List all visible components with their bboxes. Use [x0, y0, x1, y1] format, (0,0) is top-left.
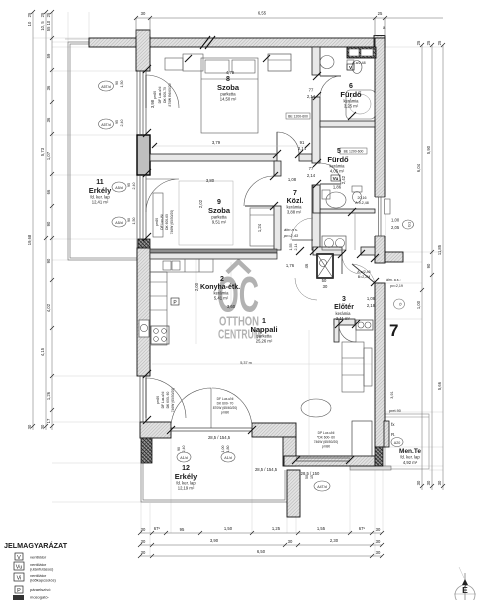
room8 bed — [201, 58, 258, 133]
svg-text:Előtér: Előtér — [334, 304, 354, 311]
svg-text:pv=2,43: pv=2,43 — [283, 233, 299, 238]
svg-text:25: 25 — [437, 40, 442, 45]
room 7 kozl label — [287, 190, 304, 215]
door arc hall to bath5 — [320, 163, 341, 184]
step wall vertical — [283, 437, 296, 466]
right wall dark block — [375, 447, 383, 466]
interior wall room8 south east part — [299, 154, 312, 161]
svg-text:12,19 m²: 12,19 m² — [178, 486, 195, 491]
shaft door arc to corridor — [295, 278, 317, 300]
svg-text:3,80: 3,80 — [206, 178, 215, 183]
door leaf room9 — [245, 205, 274, 207]
eloter washer box — [356, 320, 373, 330]
outer wall left lower — [137, 248, 150, 376]
right wall widening block — [384, 421, 389, 447]
A1/d circles balcony12 — [177, 452, 191, 462]
svg-text:50: 50 — [322, 278, 327, 283]
room 11 erkely label — [89, 179, 112, 205]
room 3 eloter label — [334, 296, 354, 321]
window in right wall (bath area) — [374, 197, 385, 236]
svg-text:É: É — [462, 585, 468, 595]
svg-text:4,15: 4,15 — [40, 347, 45, 356]
svg-text:3,90: 3,90 — [210, 538, 219, 543]
svg-text:DK 600-70: DK 600-70 — [163, 87, 167, 103]
outer wall top — [89, 38, 385, 47]
svg-text:pret.90: pret.90 — [389, 409, 401, 413]
left pier 2 dark — [138, 239, 150, 249]
svg-text:30: 30 — [376, 527, 381, 532]
svg-text:1,00: 1,00 — [391, 218, 400, 223]
svg-text:30: 30 — [141, 11, 146, 16]
svg-text:11,85: 11,85 — [437, 244, 442, 255]
G1 circle — [403, 220, 414, 229]
interior wall bath column west a — [312, 47, 320, 75]
room 12 erkely label — [175, 465, 198, 491]
svg-text:4,02: 4,02 — [46, 303, 51, 312]
svg-text:90: 90 — [177, 447, 181, 451]
svg-text:Vi: Vi — [17, 576, 22, 582]
svg-text:30: 30 — [426, 480, 431, 485]
window glazing nappali west — [140, 376, 146, 422]
door leaf bath6 — [320, 75, 341, 77]
svg-text:B=2,2M: B=2,2M — [358, 275, 371, 279]
door arc room9 balcony — [146, 179, 179, 212]
door arc room8 to hall — [277, 132, 299, 154]
svg-text:25: 25 — [426, 40, 431, 45]
svg-text:A1/d: A1/d — [180, 456, 187, 460]
svg-text:746W (65/50/20): 746W (65/50/20) — [170, 210, 174, 235]
svg-text:1,80: 1,80 — [226, 446, 230, 453]
svg-text:1: 1 — [262, 318, 266, 325]
interior wall bath column west b — [312, 97, 320, 163]
svg-text:A5/d: A5/d — [115, 186, 122, 190]
svg-text:1,50: 1,50 — [120, 81, 124, 88]
projection guide lines — [33, 12, 443, 556]
svg-text:A4T/d: A4T/d — [317, 485, 327, 489]
svg-text:5,73: 5,73 — [40, 147, 45, 156]
svg-text:3,91: 3,91 — [390, 391, 394, 398]
svg-text:6,55: 6,55 — [258, 11, 267, 16]
bath5 wc — [352, 186, 362, 192]
french door south arcs — [171, 388, 211, 428]
A20 circle — [391, 438, 403, 447]
balcony 11 railing outline — [68, 42, 137, 260]
svg-text:50: 50 — [305, 475, 309, 479]
window spec text room8 — [153, 83, 172, 106]
V symbol bath6 — [347, 64, 354, 70]
svg-text:álm a s.: álm a s. — [284, 227, 298, 232]
french door south opening glazing — [171, 428, 252, 431]
bottom wall right long — [284, 456, 375, 466]
entry door leaf — [352, 264, 375, 283]
stair landing wall stub — [385, 252, 403, 262]
svg-text:5: 5 — [337, 148, 341, 155]
window glazing room8 west — [140, 71, 146, 135]
svg-text:1,50: 1,50 — [224, 526, 233, 531]
room 2 konyha label — [200, 276, 240, 301]
svg-text:46: 46 — [304, 263, 309, 268]
svg-text:DF Lux-iNi: DF Lux-iNi — [160, 214, 164, 230]
svg-text:10, 5: 10, 5 — [40, 21, 45, 31]
svg-text:12,41 m²: 12,41 m² — [92, 200, 109, 205]
interior wall bath5 south — [320, 209, 375, 213]
svg-text:6: 6 — [349, 83, 353, 90]
interior dims and spec texts — [150, 61, 403, 479]
watermark logo OC Otthon Centrum — [217, 262, 261, 342]
svg-text:90: 90 — [46, 221, 51, 226]
svg-text:2,18: 2,18 — [367, 303, 376, 308]
svg-text:30: 30 — [376, 539, 381, 544]
door leaf bath5 — [320, 183, 341, 185]
svg-text:95: 95 — [127, 183, 131, 187]
window spec text room9 — [155, 210, 174, 235]
bottom-left dark block — [141, 438, 152, 463]
bath6 tub — [346, 90, 375, 119]
svg-text:30: 30 — [376, 550, 381, 555]
door arc nappali west — [146, 378, 186, 418]
svg-text:álm. a.s.:: álm. a.s.: — [386, 278, 401, 282]
svg-text:30: 30 — [27, 424, 32, 429]
svg-text:1,08: 1,08 — [367, 296, 376, 301]
svg-text:fd. ker. lap: fd. ker. lap — [400, 455, 420, 460]
svg-text:28,5 / 154,5: 28,5 / 154,5 — [208, 435, 231, 440]
svg-text:14,50 m²: 14,50 m² — [220, 97, 237, 102]
svg-text:1,86: 1,86 — [333, 185, 342, 190]
svg-text:3,79: 3,79 — [212, 140, 221, 145]
corridor south wall — [150, 249, 277, 253]
svg-text:30: 30 — [437, 480, 442, 485]
svg-text:DF Lux-uNi: DF Lux-uNi — [161, 391, 165, 408]
svg-text:12: 12 — [182, 465, 190, 472]
balcony 11 slab line top — [65, 38, 89, 40]
svg-text:30: 30 — [288, 539, 293, 544]
room8 wardrobe top — [165, 58, 183, 70]
svg-text:A.a/2,48: A.a/2,48 — [352, 61, 365, 65]
svg-text:7: 7 — [389, 321, 398, 340]
eloter west stub wall — [334, 319, 339, 342]
bath5 west wall lower — [313, 185, 320, 213]
svg-text:4,05 m²: 4,05 m² — [330, 169, 345, 174]
svg-text:25,26 m²: 25,26 m² — [256, 339, 273, 344]
nappali sofa — [342, 342, 364, 392]
entry door arc from landing — [342, 255, 361, 274]
svg-text:1,55: 1,55 — [289, 244, 293, 251]
svg-text:A5/d: A5/d — [115, 221, 122, 225]
svg-text:pm90: pm90 — [221, 411, 229, 415]
svg-text:A1/d: A1/d — [224, 456, 231, 460]
terrace door glazing south-east — [296, 421, 372, 461]
svg-text:V: V — [17, 555, 21, 561]
svg-text:pm90: pm90 — [156, 396, 160, 404]
svg-text:1,26: 1,26 — [46, 391, 51, 400]
svg-text:30: 30 — [323, 284, 328, 289]
svg-text:1,76: 1,76 — [286, 263, 295, 268]
room 8 label — [217, 76, 240, 102]
svg-text:67⁵: 67⁵ — [154, 526, 161, 531]
svg-text:91: 91 — [300, 140, 305, 145]
door spec text terrace door — [314, 431, 339, 449]
P symbol kitchen — [171, 298, 179, 305]
north arrow — [454, 567, 476, 600]
svg-text:2,02: 2,02 — [198, 199, 203, 208]
svg-text:2,00: 2,00 — [194, 282, 199, 291]
svg-text:DP Lux-uNi: DP Lux-uNi — [318, 431, 335, 435]
svg-text:36: 36 — [46, 85, 51, 90]
svg-text:28,5 / 154,5: 28,5 / 154,5 — [255, 467, 278, 472]
boiler on wall — [139, 320, 149, 337]
svg-text:1,25: 1,25 — [272, 526, 281, 531]
svg-text:90: 90 — [127, 218, 131, 222]
svg-text:(időkapcsolós): (időkapcsolós) — [30, 578, 56, 583]
svg-text:1,07: 1,07 — [46, 151, 51, 160]
svg-text:1,24: 1,24 — [257, 223, 262, 232]
svg-text:2,11 m²: 2,11 m² — [336, 316, 350, 321]
svg-text:25: 25 — [40, 12, 45, 17]
A4T/d circle — [314, 481, 330, 491]
svg-text:6,50: 6,50 — [257, 549, 266, 554]
Vu symbol bath5 — [331, 175, 340, 181]
svg-text:DK 600- 60: DK 600- 60 — [166, 391, 170, 408]
svg-text:A5T/d: A5T/d — [101, 123, 111, 127]
entry shaft — [317, 254, 333, 278]
bath6 sink — [320, 56, 334, 69]
legend JELMAGYARAZAT — [4, 541, 68, 600]
svg-text:30: 30 — [141, 539, 146, 544]
terrace Men.Te outline — [385, 414, 429, 469]
svg-text:59: 59 — [46, 53, 51, 58]
svg-text:15: 15 — [310, 475, 314, 479]
svg-text:G: G — [398, 302, 403, 305]
svg-text:3: 3 — [342, 296, 346, 303]
balcony 12 railing outline — [141, 463, 287, 502]
room9 wardrobe — [153, 193, 163, 237]
room9 bed — [250, 208, 274, 246]
svg-text:2,14: 2,14 — [294, 244, 298, 251]
door spec text south french door — [213, 397, 238, 415]
svg-text:(utánfutásos): (utánfutásos) — [30, 567, 54, 572]
svg-text:1,08: 1,08 — [288, 177, 297, 182]
svg-text:BE 1200-600: BE 1200-600 — [344, 150, 364, 154]
svg-text:4,79: 4,79 — [226, 70, 235, 75]
svg-text:pv=2,19: pv=2,19 — [390, 284, 403, 288]
tick slashes openings — [143, 36, 379, 464]
door leaf room8 hall — [276, 132, 278, 154]
outer wall right upper — [375, 38, 385, 263]
dimension chain top — [136, 18, 443, 36]
svg-text:A20: A20 — [394, 441, 400, 445]
svg-text:pm90: pm90 — [153, 91, 157, 99]
svg-text:*DK 600- 60: *DK 600- 60 — [317, 436, 335, 440]
svg-text:66: 66 — [46, 189, 51, 194]
svg-text:870W R6/60/20: 870W R6/60/20 — [168, 83, 172, 106]
svg-text:3,60: 3,60 — [227, 304, 236, 309]
svg-text:25: 25 — [378, 11, 383, 16]
door arc eloter to nappali — [339, 325, 356, 342]
dimension chains left — [33, 12, 52, 430]
svg-text:746W (65/50/20): 746W (65/50/20) — [314, 440, 339, 444]
svg-text:5,66: 5,66 — [437, 381, 442, 390]
stove — [151, 326, 169, 344]
svg-text:DK 600-60: DK 600-60 — [165, 214, 169, 230]
svg-text:90: 90 — [115, 81, 119, 85]
terrace floor strip — [350, 466, 391, 470]
svg-text:5,41 m²: 5,41 m² — [214, 296, 229, 301]
svg-text:4,92 m²: 4,92 m² — [403, 460, 418, 465]
svg-text:Vu: Vu — [333, 176, 339, 181]
svg-text:870W (65/60/20): 870W (65/60/20) — [213, 406, 238, 410]
svg-text:11: 11 — [96, 179, 104, 186]
svg-text:25: 25 — [27, 12, 32, 17]
svg-text:67⁵: 67⁵ — [359, 526, 366, 531]
A5T/d circles balcony11 — [99, 81, 114, 91]
svg-text:55 10: 55 10 — [46, 20, 51, 31]
dimension chains bottom — [140, 533, 382, 556]
svg-text:90: 90 — [426, 263, 431, 268]
svg-text:A.9-2,48: A.9-2,48 — [355, 201, 369, 205]
svg-text:A5T/d: A5T/d — [101, 85, 111, 89]
nappali coffee table — [301, 399, 331, 417]
svg-text:DF Lux-uNi: DF Lux-uNi — [158, 86, 162, 103]
dimension chains right — [422, 45, 443, 490]
kitchen counter west — [150, 272, 167, 345]
svg-text:90: 90 — [46, 258, 51, 263]
window spec text nappali west — [156, 388, 175, 413]
svg-text:2,30: 2,30 — [330, 538, 339, 543]
top-right corner pilaster — [374, 36, 385, 47]
svg-text:2,40: 2,40 — [132, 183, 136, 190]
outer wall bottom-left piece — [140, 422, 171, 438]
svg-text:BE 1200-600: BE 1200-600 — [288, 115, 308, 119]
svg-text:A.a/2,46: A.a/2,46 — [357, 270, 370, 274]
interior wall bath6 south — [320, 121, 375, 127]
svg-text:2,42: 2,42 — [341, 175, 346, 184]
corridor south wall east piece b — [361, 247, 375, 255]
entry threshold — [375, 262, 385, 264]
door arc room8 balcony — [146, 75, 179, 108]
door spec circle eloter — [394, 299, 405, 309]
svg-text:10: 10 — [27, 21, 32, 26]
bath shaft top — [347, 47, 376, 58]
lower right stub wall — [287, 470, 300, 517]
svg-text:2,40: 2,40 — [182, 446, 186, 453]
svg-text:1,55: 1,55 — [317, 526, 326, 531]
room9 inner rect — [179, 181, 233, 245]
svg-text:7: 7 — [293, 190, 297, 197]
left pier 1 — [137, 135, 150, 175]
outer wall left top stub — [136, 30, 150, 71]
svg-text:20,16: 20,16 — [358, 196, 367, 200]
interior wall room8 south west part — [150, 154, 277, 161]
svg-text:6,04: 6,04 — [416, 163, 421, 172]
svg-text:DK 600- 70: DK 600- 70 — [217, 402, 234, 406]
svg-text:2,40: 2,40 — [120, 120, 124, 127]
svg-text:30: 30 — [416, 480, 421, 485]
svg-text:8: 8 — [226, 76, 230, 83]
svg-text:19,68: 19,68 — [27, 234, 32, 245]
svg-text:95: 95 — [115, 120, 119, 124]
svg-text:R.: R. — [391, 432, 396, 437]
svg-text:1,00: 1,00 — [221, 446, 225, 453]
window glazing room9 west — [140, 175, 146, 239]
interior wall bath column west c — [312, 185, 320, 250]
kitchen counter north — [150, 259, 213, 272]
svg-text:9: 9 — [217, 199, 221, 206]
svg-text:30: 30 — [141, 550, 146, 555]
svg-text:36: 36 — [46, 117, 51, 122]
svg-text:pm90: pm90 — [322, 445, 330, 449]
bath6 wc — [347, 60, 354, 70]
svg-text:25: 25 — [46, 12, 51, 17]
door arc room9 to hall — [244, 176, 274, 206]
svg-text:3,98: 3,98 — [150, 99, 155, 108]
outer wall right lower — [375, 283, 385, 447]
svg-text:páraelszívó: páraelszívó — [30, 587, 51, 592]
Men.Te label — [399, 448, 421, 465]
svg-text:1,00: 1,00 — [416, 300, 421, 309]
svg-text:DF Lux-uNi: DF Lux-uNi — [217, 397, 234, 401]
svg-text:95: 95 — [180, 527, 185, 532]
svg-text:746W (65/50/20): 746W (65/50/20) — [171, 388, 175, 413]
outer wall bottom-right piece — [252, 423, 296, 437]
interior wall room9 east lower — [274, 206, 281, 250]
hall small marks — [286, 113, 310, 119]
svg-text:17: 17 — [46, 418, 51, 423]
door arc room8 to bath6 — [320, 76, 341, 97]
svg-text:25: 25 — [416, 40, 421, 45]
svg-text:2,14: 2,14 — [307, 173, 316, 178]
svg-text:JELMAGYARÁZAT: JELMAGYARÁZAT — [4, 541, 68, 550]
svg-text:5,90: 5,90 — [426, 145, 431, 154]
svg-text:3,88 m²: 3,88 m² — [287, 210, 302, 215]
svg-text:P: P — [17, 588, 21, 594]
svg-text:Vu: Vu — [16, 565, 23, 571]
eloter south wall — [334, 319, 355, 325]
svg-text:3,25 m²: 3,25 m² — [344, 104, 359, 109]
svg-text:ventilátor: ventilátor — [30, 555, 47, 560]
svg-text:pm90: pm90 — [155, 218, 159, 226]
room 9 label — [208, 199, 231, 225]
room 6 furdo label — [340, 83, 362, 109]
svg-text:mosogató-: mosogató- — [30, 595, 50, 600]
svg-text:2: 2 — [220, 276, 224, 283]
corridor south wall east piece a — [313, 247, 342, 255]
svg-text:77: 77 — [309, 88, 314, 93]
bath5 shower — [326, 192, 346, 208]
svg-text:9,51 m²: 9,51 m² — [212, 220, 227, 225]
room 1 nappali label — [250, 318, 277, 344]
kitchen cabinet dividers — [184, 259, 186, 272]
svg-text:1,50: 1,50 — [132, 218, 136, 225]
svg-text:5,37 m: 5,37 m — [240, 361, 252, 365]
svg-text:30: 30 — [40, 424, 45, 429]
interior wall room9 east upper — [274, 161, 281, 176]
svg-text:G1: G1 — [407, 221, 412, 227]
room 5 furdo label — [327, 148, 349, 174]
laundry washer — [322, 236, 346, 250]
hall storage door arc — [291, 218, 313, 240]
svg-text:2,05: 2,05 — [391, 225, 400, 230]
svg-text:30: 30 — [141, 527, 146, 532]
